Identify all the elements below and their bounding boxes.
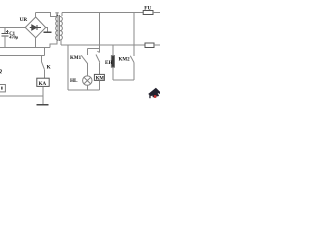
contact KM1 [81, 49, 87, 77]
contact to KM coil [96, 51, 100, 74]
lamp bottom lead [86, 85, 88, 90]
top rail left segment [36, 13, 58, 17]
KM coil box [94, 74, 104, 80]
switch K [42, 55, 45, 78]
ground bar (bridge) [44, 31, 52, 33]
wire to left edge y96 [0, 95, 43, 97]
EH bottom loop wire [113, 79, 134, 81]
drop from top rail at x99.5 [99, 13, 101, 53]
svg-text:FU: FU [144, 5, 151, 11]
transformer primary top lead [61, 13, 63, 17]
svg-text:470μ: 470μ [9, 35, 18, 40]
DC bottom rail [0, 47, 50, 49]
bridge bottom stub [35, 38, 37, 48]
svg-text:KM2: KM2 [119, 58, 131, 63]
wire top-left to bridge left vertex [0, 27, 25, 29]
svg-text:EH: EH [105, 60, 113, 66]
watermark logo [148, 88, 160, 99]
relay KA box [37, 78, 49, 86]
bridge rectifier UR diamond [25, 17, 45, 38]
primary bottom lead [60, 40, 62, 45]
bridge inner diode [30, 25, 41, 30]
bridge top stub [35, 13, 37, 18]
svg-text:KM1: KM1 [70, 56, 82, 61]
EH bottom lead [112, 67, 114, 80]
svg-text:UR: UR [20, 17, 28, 23]
transformer core [58, 15, 59, 41]
bridge right lead to ground [46, 28, 48, 32]
capacitor C1 [1, 28, 8, 48]
svg-text:KA: KA [39, 82, 47, 87]
fuse FU [143, 11, 153, 15]
KA bottom lead [42, 86, 44, 104]
svg-text:HL: HL [70, 78, 78, 84]
long vertical return [67, 45, 69, 90]
junction wire y48.5 [87, 48, 99, 50]
K branch drop [44, 48, 46, 56]
fuse FU2 [145, 43, 154, 48]
ground [36, 104, 48, 106]
top rail right segment [62, 12, 143, 14]
mid rail (neutral) [61, 44, 145, 46]
EH top lead [112, 45, 114, 55]
KM coil bottom lead [99, 80, 101, 90]
drop from top rail at x134 [133, 13, 135, 56]
Q component box [0, 85, 5, 92]
bottom return wire [68, 89, 100, 91]
transformer T right winding [60, 17, 62, 41]
lamp HL [83, 76, 92, 85]
heating element EH [111, 56, 114, 68]
transformer secondary bottom lead [50, 40, 57, 47]
svg-text:K: K [47, 64, 51, 70]
transformer T left winding [56, 17, 57, 41]
wire to left edge y55.4 [0, 54, 45, 56]
contact KM2 [130, 56, 134, 80]
